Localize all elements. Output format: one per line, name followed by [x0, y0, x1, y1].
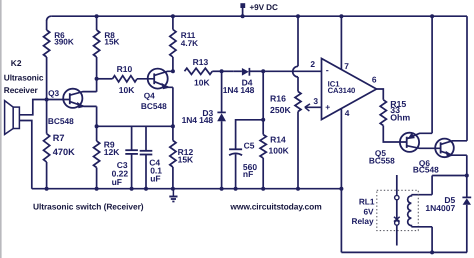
svg-text:+: +: [325, 102, 330, 112]
wire rail to R8: [96, 16, 98, 30]
label nF: [243, 169, 253, 179]
label R16: [270, 94, 286, 104]
wire node E to R12: [172, 126, 174, 140]
svg-text:Ohm: Ohm: [390, 113, 410, 123]
wire R8 to node B: [96, 57, 98, 79]
node H (C5/R14): [261, 118, 265, 122]
transistor Q6 BC548: [435, 139, 467, 158]
label BC548 (Q3): [48, 116, 74, 126]
svg-text:Q3: Q3: [48, 88, 59, 98]
wire node F to D4: [222, 70, 234, 72]
wire K2 top lead to node A: [19, 100, 46, 115]
label 12K: [104, 147, 120, 157]
capacitor C5: [229, 149, 242, 188]
svg-text:1N4 148: 1N4 148: [182, 115, 214, 125]
node B (R8/R10/Q3 collector): [95, 77, 99, 81]
node rail-Q5emitter: [430, 14, 434, 18]
node rail-R8: [95, 14, 99, 18]
label Q4: [144, 90, 155, 100]
wire node G down: [262, 71, 264, 120]
wire rail to R6: [46, 21, 48, 30]
diode D5 1N4007: [462, 197, 471, 252]
label 33: [390, 105, 400, 115]
op-amp IC1 CA3140: [322, 59, 377, 120]
resistor R12: [170, 141, 176, 168]
svg-text:1N4007: 1N4007: [425, 203, 455, 213]
label Ohm: [390, 113, 410, 123]
label pin 6: [372, 75, 377, 85]
label uF (C3): [112, 177, 122, 187]
relay RL1 dashed box: [377, 190, 419, 230]
svg-text:K2: K2: [11, 58, 22, 68]
node J (Q6 emitter/D5/relay coil): [465, 174, 469, 178]
wire R6 to node A: [46, 57, 48, 100]
wire Q3 emitter down: [96, 106, 98, 126]
wire emitter row: [97, 125, 173, 127]
ultrasonic receiver K2 (transducer symbol): [5, 101, 20, 135]
wire R15 to Q5 base: [383, 126, 406, 143]
capacitor C3: [125, 126, 138, 188]
svg-text:R13: R13: [193, 57, 209, 67]
label 0.22: [112, 168, 129, 178]
label R10: [117, 64, 133, 74]
label pin 2: [310, 59, 315, 69]
resistor R11: [170, 30, 176, 58]
node D (R11/Q4 collector/R13): [171, 69, 175, 73]
label 15K: [104, 37, 119, 46]
label Relay: [351, 216, 374, 226]
svg-text:RL1: RL1: [359, 196, 375, 206]
transistor Q5 BC558: [400, 133, 441, 152]
label uF (C4): [150, 174, 160, 184]
svg-text:+9V DC: +9V DC: [250, 3, 278, 12]
wire node F to D3: [221, 71, 223, 112]
svg-text:390K: 390K: [54, 37, 74, 46]
node gnd-C5: [234, 187, 238, 191]
wire coil bottom lead: [411, 226, 432, 228]
label pin 3: [313, 96, 318, 106]
svg-text:R7: R7: [53, 133, 65, 143]
pin 4 wire: [340, 109, 342, 253]
svg-text:R14: R14: [270, 134, 286, 144]
svg-text:10K: 10K: [194, 77, 210, 87]
label 1N4148 (D3): [182, 115, 214, 125]
node gnd-C3: [130, 187, 134, 191]
node A (R6/R7/base): [45, 98, 49, 102]
label BC548 (Q4): [141, 101, 167, 111]
svg-text:uF: uF: [150, 174, 160, 184]
node gnd-R16: [296, 187, 300, 191]
label R9: [104, 140, 115, 150]
svg-text:1N4 148: 1N4 148: [223, 85, 255, 95]
resistor R7: [44, 134, 50, 162]
R16 wiper arrow to pin 3: [305, 104, 322, 111]
resistor R10: [113, 76, 138, 82]
op-amp plus sign: [325, 102, 330, 112]
transistor Q4 BC548: [148, 69, 173, 90]
node G (D4/C5-R14/pin2): [261, 69, 265, 73]
node gnd-R7: [45, 187, 49, 191]
ground symbol: [169, 189, 177, 202]
label 470K: [53, 147, 75, 157]
resistor R13: [185, 68, 213, 74]
svg-text:Relay: Relay: [351, 216, 374, 226]
wire rail to R16 with hop over pin2 wire: [293, 16, 298, 91]
label R8: [104, 31, 115, 40]
label pin 4: [345, 108, 350, 118]
svg-text:470K: 470K: [53, 147, 75, 157]
label 390K: [54, 37, 74, 46]
svg-text:-: -: [326, 65, 329, 75]
svg-text:BC548: BC548: [48, 116, 74, 126]
pin 7 wire: [340, 16, 342, 69]
pin 6 output wire: [377, 89, 384, 100]
diode D4 1N4148: [234, 68, 263, 76]
svg-text:BC558: BC558: [369, 155, 395, 165]
wire rail to R11: [172, 16, 174, 29]
wire node B to R10: [97, 78, 113, 80]
label D4: [242, 78, 253, 88]
svg-text:R10: R10: [117, 64, 133, 74]
wire node J to D5: [466, 176, 468, 198]
svg-text:4: 4: [345, 108, 350, 118]
label 10K (R13): [194, 77, 210, 87]
label R7: [53, 133, 65, 143]
label C3: [117, 160, 128, 170]
wire Q4 emitter down: [172, 87, 174, 126]
label 10K (R10): [119, 85, 135, 95]
wire Q3 base: [47, 99, 70, 101]
resistor R8: [94, 30, 100, 57]
label 6V: [363, 207, 374, 217]
wire R10 to Q4 base: [137, 78, 154, 80]
node C (emitter/R9/C-row): [95, 124, 99, 128]
label 0.1: [150, 166, 162, 176]
svg-text:Receiver: Receiver: [4, 85, 39, 95]
svg-text:uF: uF: [112, 177, 122, 187]
wire R12 to ground: [172, 167, 174, 189]
svg-text:4.7K: 4.7K: [181, 39, 198, 48]
wire R11 to node D: [172, 57, 174, 71]
node coil-bottom-rail: [430, 250, 434, 254]
wire node H to C5: [236, 120, 264, 150]
label 250K: [270, 105, 291, 115]
wire R14 to ground: [262, 158, 264, 189]
label RL1: [359, 196, 375, 206]
node rail-R16: [296, 14, 300, 18]
label +9V DC: [250, 3, 278, 12]
wire R16 to ground: [297, 112, 299, 189]
wire node A to R7: [46, 100, 48, 134]
label R13: [193, 57, 209, 67]
label D5: [444, 195, 455, 205]
wire Q5 emitter to +9V: [431, 16, 433, 133]
svg-text:6: 6: [372, 75, 377, 85]
page left border: [0, 0, 2, 258]
svg-text:3: 3: [313, 96, 318, 106]
caption www.circuitstoday.com: [229, 202, 321, 212]
label BC548 (Q6): [413, 165, 439, 175]
node gnd-pin4: [339, 187, 343, 191]
label pin 7: [344, 61, 349, 71]
wire node J to coil column: [432, 175, 467, 177]
svg-text:Q4: Q4: [144, 90, 155, 100]
wire Q6 emitter down to node J: [466, 155, 468, 175]
wire node G to op-amp pin 2: [263, 70, 321, 72]
label R14: [270, 134, 286, 144]
label R6: [54, 31, 65, 40]
label CA3140: [328, 86, 356, 95]
resistor R15: [380, 100, 386, 126]
label Q5: [375, 148, 386, 158]
svg-text:100K: 100K: [269, 145, 290, 155]
node gnd-R9: [95, 187, 99, 191]
svg-text:Ultrasonic: Ultrasonic: [4, 73, 44, 83]
wire node H to R14: [262, 120, 264, 135]
resistor R6: [44, 30, 50, 57]
node E (Q4 emitter/R12): [171, 124, 175, 128]
svg-text:15K: 15K: [104, 37, 119, 46]
svg-text:10K: 10K: [119, 85, 135, 95]
label C5: [244, 140, 255, 150]
svg-text:250K: 250K: [270, 105, 291, 115]
label C4: [149, 158, 160, 168]
node gnd-R14: [261, 187, 265, 191]
svg-text:BC548: BC548: [141, 101, 167, 111]
svg-text:BC548: BC548: [413, 165, 439, 175]
wire ground rail: [32, 188, 342, 190]
svg-text:R16: R16: [270, 94, 286, 104]
caption Ultrasonic switch (Receiver): [33, 202, 144, 212]
node gnd-D3: [220, 187, 224, 191]
node rail-pin7: [339, 14, 343, 18]
svg-text:15K: 15K: [178, 155, 194, 165]
relay coil: [408, 195, 412, 227]
wire node B down to Q3 collector: [96, 79, 98, 92]
resistor R14: [260, 135, 266, 158]
transistor Q3 BC548: [63, 89, 96, 109]
svg-text:C5: C5: [244, 140, 255, 150]
svg-text:2: 2: [310, 59, 315, 69]
power +9V DC symbol: [240, 3, 245, 18]
label 1N4007: [425, 203, 455, 213]
label R15: [390, 99, 406, 109]
label BC558: [369, 155, 395, 165]
wire coil column lower: [431, 227, 433, 253]
wire +9V top rail: [47, 16, 467, 21]
node rail-R11: [171, 14, 175, 18]
wire K2 bottom lead to ground: [19, 121, 31, 189]
wire R13 to node F: [212, 70, 221, 72]
label 100K: [269, 145, 290, 155]
label Ultrasonic: [4, 73, 44, 83]
svg-text:7: 7: [344, 61, 349, 71]
wire R7 to ground: [46, 162, 48, 189]
label 1N4148 (D4): [223, 85, 255, 95]
label 4.7K: [181, 39, 198, 48]
resistor R9: [94, 141, 100, 168]
label K2: [11, 58, 22, 68]
label Receiver: [4, 85, 39, 95]
node gnd-C4: [144, 187, 148, 191]
wire R9 to ground: [96, 168, 98, 189]
wire coil top lead: [411, 194, 432, 196]
label Q3: [48, 88, 59, 98]
potentiometer R16 250K: [295, 92, 301, 112]
node gnd-R12: [171, 187, 175, 191]
label 560: [243, 162, 257, 172]
wire relay bottom rail: [341, 251, 467, 253]
diode D3 1N4148: [217, 112, 226, 188]
wire right rail +9V to Q6 collector: [466, 16, 468, 141]
node F (R13/D3/D4): [220, 69, 224, 73]
label Q6: [419, 158, 430, 168]
capacitor C4: [140, 126, 153, 188]
relay contact: [394, 175, 400, 246]
svg-text:CA3140: CA3140: [328, 86, 356, 95]
label R11: [181, 31, 196, 40]
svg-text:www.circuitstoday.com: www.circuitstoday.com: [229, 202, 321, 212]
svg-text:Ultrasonic switch (Receiver): Ultrasonic switch (Receiver): [33, 202, 144, 212]
svg-text:nF: nF: [243, 169, 253, 179]
wire node C to R9: [96, 126, 98, 141]
label 15K (R12): [178, 155, 194, 165]
svg-text:12K: 12K: [104, 147, 120, 157]
wire coil column upper: [431, 176, 433, 195]
op-amp minus sign: [326, 65, 329, 75]
label R12: [178, 147, 194, 157]
label D3: [202, 108, 213, 118]
label IC1: [328, 79, 341, 88]
